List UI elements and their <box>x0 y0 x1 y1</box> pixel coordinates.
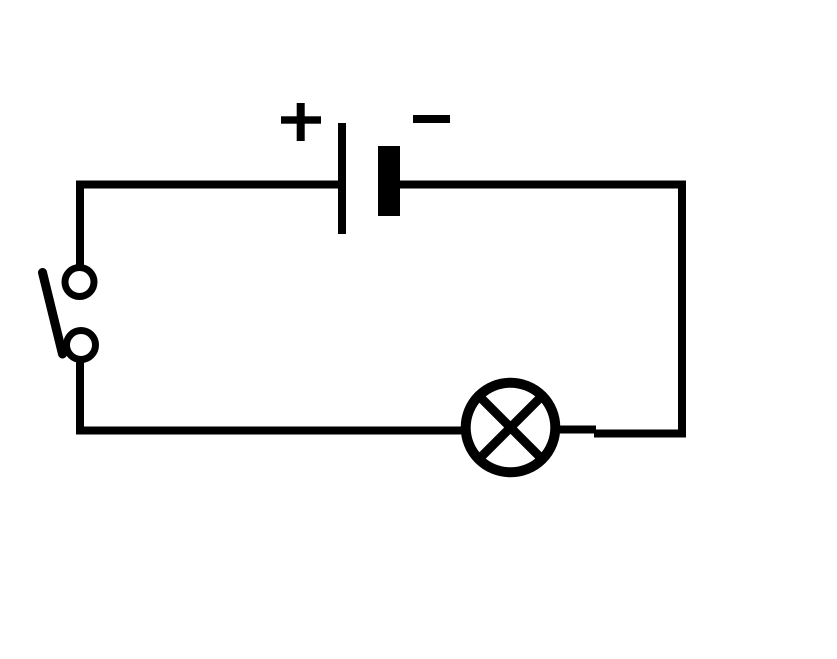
switch S1 bottom terminal <box>67 331 96 360</box>
lamp L1 cross X <box>482 399 539 456</box>
wire: left vertical + top-left horizontal to battery positive plate <box>80 185 338 267</box>
battery B1 positive plate (long thin) <box>338 123 346 234</box>
wire: bottom-left horizontal + left vertical up to switch <box>80 360 465 431</box>
switch S1 lever (open blade) <box>43 273 63 355</box>
lamp L1 circle <box>466 383 556 473</box>
switch S1 top terminal <box>65 268 94 297</box>
wire: top-right horizontal + right vertical down to bottom <box>400 185 682 434</box>
label + (positive terminal) <box>281 103 321 141</box>
wire: bottom segment from jog to lamp right side <box>556 426 596 434</box>
label - (negative terminal) <box>413 115 450 123</box>
battery B1 negative plate (short thick) <box>378 146 400 216</box>
